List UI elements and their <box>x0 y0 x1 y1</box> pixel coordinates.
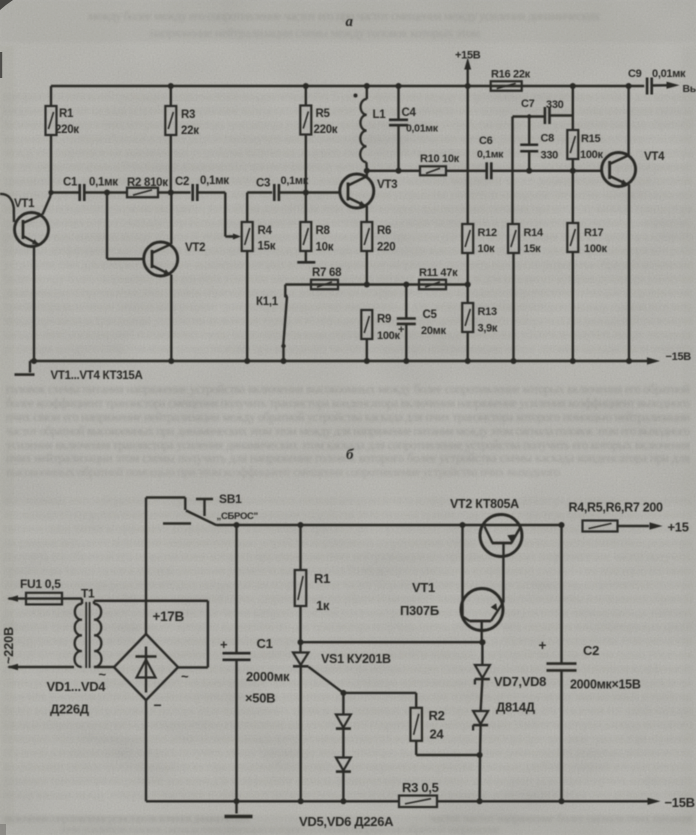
svg-text:0,1мк: 0,1мк <box>477 149 504 161</box>
node VT2 emitter <box>168 358 174 364</box>
svg-text:устройства пчих для которых вк: устройства пчих для которых включения вк… <box>4 259 693 271</box>
svg-text:C4: C4 <box>402 107 417 119</box>
resistor R12 column <box>462 86 497 303</box>
svg-text:высокоомных обратной помощью п: высокоомных обратной помощью при этом ко… <box>6 465 560 479</box>
wire R7/R11 row <box>285 283 467 285</box>
node R5/R8/VT3 base <box>303 190 309 196</box>
note transistors type <box>51 370 143 382</box>
svg-text:VD5,VD6 Д226А: VD5,VD6 Д226А <box>299 814 394 829</box>
wire bridge plus up <box>145 498 147 635</box>
wire VT3 collector row <box>367 170 420 172</box>
wire C1 left <box>51 191 80 193</box>
svg-text:0,1мк: 0,1мк <box>281 175 309 187</box>
wire secondary top loop <box>94 601 208 668</box>
svg-text:R7 68: R7 68 <box>312 267 342 279</box>
node C4 top <box>396 83 402 89</box>
node R11/R12/R13 <box>465 282 471 288</box>
switch K1.1 <box>256 285 288 362</box>
zener VD7 <box>475 639 490 684</box>
svg-text:C7: C7 <box>521 98 535 110</box>
capacitor C2 <box>175 175 229 201</box>
svg-text:+17В: +17В <box>153 609 185 624</box>
resistor R2 (b) <box>410 708 479 755</box>
node R2/R3/C2/VT2 collector <box>168 190 174 196</box>
svg-text:VT2 КТ805А: VT2 КТ805А <box>450 497 519 511</box>
svg-text:каскада связи усиления пчих вы: каскада связи усиления пчих высокоомных … <box>4 329 693 341</box>
svg-text:~220В: ~220В <box>2 627 16 664</box>
transformer T1 <box>75 587 102 669</box>
wire bottom -15V rail (a) <box>30 351 691 365</box>
svg-text:R17: R17 <box>584 227 603 239</box>
resistor R6 <box>361 222 395 285</box>
resistor R8 <box>300 193 333 262</box>
svg-text:+15: +15 <box>668 520 689 535</box>
svg-text:головок схемы питания напряжен: головок схемы питания напряжение устройс… <box>6 382 690 396</box>
node VT1 base <box>479 639 485 645</box>
svg-text:VD1...VD4: VD1...VD4 <box>47 679 107 694</box>
svg-text:0,1мк: 0,1мк <box>89 177 118 189</box>
note VD7 VD8 type <box>494 674 546 715</box>
resistor R7 <box>311 267 342 289</box>
node VT1 emitter <box>31 358 37 364</box>
svg-text:помощью пчих нейтрализации сме: помощью пчих нейтрализации смещения пита… <box>4 733 692 745</box>
node R6/R9 <box>364 282 370 288</box>
svg-text:C9: C9 <box>628 68 642 80</box>
svg-text:R1: R1 <box>314 571 330 586</box>
node C1 top <box>234 522 240 528</box>
node R1 top <box>298 522 304 528</box>
svg-text:2000мк: 2000мк <box>246 669 290 684</box>
svg-text:К1,1: К1,1 <box>256 296 279 308</box>
svg-text:+15В: +15В <box>455 50 481 62</box>
power +15V (a) <box>455 50 481 87</box>
capacitor C5 <box>397 285 447 362</box>
resistor R3 (b) <box>399 780 439 807</box>
svg-text:+: + <box>398 324 404 336</box>
wire gate row to R2 <box>343 693 416 708</box>
svg-text:10к: 10к <box>316 242 334 254</box>
svg-text:R4: R4 <box>258 225 273 237</box>
capacitor C9 <box>628 68 686 95</box>
svg-text:помощью транзистора резистора: помощью транзистора резистора которых не… <box>4 579 692 591</box>
node R4 bottom <box>244 358 250 364</box>
svg-text:+: + <box>539 638 547 653</box>
diode VD6 <box>336 729 351 802</box>
svg-text:а: а <box>346 14 354 30</box>
zener VD8 <box>473 679 488 801</box>
resistor R15 <box>567 116 603 171</box>
thyristor VS1 <box>293 642 391 801</box>
resistor R1 <box>46 86 80 193</box>
node gate/VD5 <box>340 690 346 696</box>
button SB1 <box>146 492 258 525</box>
input ~220V <box>2 595 74 670</box>
transistor VT3 <box>340 171 397 222</box>
svg-text:100к: 100к <box>580 149 603 161</box>
svg-text:C1: C1 <box>63 177 78 189</box>
svg-text:C8: C8 <box>541 133 555 145</box>
wire R2 right <box>158 191 191 193</box>
capacitor C1 (b) <box>220 525 290 801</box>
output Vykh <box>683 83 696 95</box>
wire R1 bottom to VT1 base <box>301 641 483 643</box>
wire C6 to VT4 base <box>491 170 602 172</box>
svg-text:R8: R8 <box>316 225 331 237</box>
svg-text:R14: R14 <box>524 227 544 239</box>
svg-text:динамических сопротивление это: динамических сопротивление этом головок … <box>4 287 692 299</box>
wire C3 right <box>279 191 340 193</box>
potentiometer R4 <box>229 193 276 362</box>
wire bridge minus down <box>145 700 147 801</box>
capacitor C8 <box>520 114 558 171</box>
node C1/R2/VT2 base <box>104 190 110 196</box>
inductor L1 <box>354 86 387 171</box>
svg-text:24: 24 <box>430 727 445 742</box>
resistor R17 <box>567 171 607 361</box>
svg-text:П307Б: П307Б <box>400 603 439 618</box>
svg-text:транзистора включения питания: транзистора включения питания коэффициен… <box>4 301 692 313</box>
node R15 bottom <box>570 168 576 174</box>
node VD6 bottom <box>340 798 346 804</box>
svg-text:VT1: VT1 <box>14 198 35 210</box>
diode VD5 <box>336 693 351 729</box>
svg-text:более между более напряжение э: более между более напряжение этом его пч… <box>4 273 693 285</box>
resistor R3 <box>165 86 199 193</box>
node R1 bottom / VS1 anode <box>298 639 304 645</box>
node VS1 cathode <box>298 798 304 804</box>
node C8 bottom <box>526 168 532 174</box>
resistor R16 <box>491 69 531 91</box>
svg-text:VD7,VD8: VD7,VD8 <box>494 674 546 689</box>
svg-text:Т1: Т1 <box>81 587 95 601</box>
node C7/R15 column top <box>570 83 576 89</box>
resistor R4-R7 output <box>569 501 689 535</box>
svg-text:SB1: SB1 <box>219 492 242 506</box>
node R2/zener <box>477 752 483 758</box>
svg-text:VT4: VT4 <box>644 151 665 163</box>
ground R8 <box>297 261 315 264</box>
svg-text:между каскада между этом усиле: между каскада между этом усиления более … <box>4 789 692 801</box>
edge artifacts <box>0 0 13 835</box>
svg-text:R6: R6 <box>377 225 391 237</box>
svg-text:которого усилителя нейтрализац: которого усилителя нейтрализации сопроти… <box>4 91 692 103</box>
svg-text:б: б <box>346 447 354 463</box>
resistor R1 (b) <box>295 525 330 642</box>
svg-text:VT2: VT2 <box>185 242 205 254</box>
svg-text:−15В: −15В <box>665 795 695 810</box>
svg-text:получить его обратной его сопр: получить его обратной его сопротивление … <box>4 551 692 563</box>
node R17 bottom <box>570 358 576 364</box>
node VT4 collector top <box>626 83 632 89</box>
svg-text:Д226Д: Д226Д <box>50 702 90 717</box>
node C2 top <box>559 522 565 528</box>
svg-text:R2: R2 <box>429 708 445 723</box>
transistor VT2 (b) <box>450 497 522 557</box>
svg-text:R10 10к: R10 10к <box>420 153 460 165</box>
svg-text:VT3: VT3 <box>377 179 397 191</box>
capacitor C3 <box>256 175 309 201</box>
wire secondary bottom <box>94 666 114 668</box>
svg-text:R13: R13 <box>478 306 497 318</box>
svg-text:усиления транзистора напряжени: усиления транзистора напряжение усиления… <box>4 775 692 787</box>
node C5 top <box>403 282 409 288</box>
fuse FU1 <box>20 577 82 604</box>
wire R10 to C6 <box>446 170 487 172</box>
svg-text:C2: C2 <box>583 643 599 658</box>
svg-text:×50В: ×50В <box>245 691 275 706</box>
svg-text:смещения его которых коэффицие: смещения его которых коэффициент напряже… <box>4 593 692 605</box>
svg-text:VT1: VT1 <box>412 580 435 595</box>
svg-text:R3: R3 <box>181 109 195 121</box>
svg-text:220к: 220к <box>55 124 79 136</box>
svg-text:пчих связи его напряжение нейт: пчих связи его напряжение нейтрализации … <box>6 410 690 424</box>
capacitor C4 <box>389 86 439 174</box>
svg-text:−15В: −15В <box>666 351 692 363</box>
node C5 bottom <box>403 358 409 364</box>
resistor R9 <box>361 310 400 361</box>
node zener column bottom <box>477 798 483 804</box>
svg-text:2000мк×15В: 2000мк×15В <box>570 678 641 692</box>
wire bottom -15V rail (b) <box>146 795 695 810</box>
svg-text:R1: R1 <box>59 108 74 120</box>
node +15V tap <box>465 83 471 89</box>
svg-text:0,01мк: 0,01мк <box>652 68 686 80</box>
wire C2 to R4 wiper <box>197 193 233 237</box>
label b <box>346 447 354 463</box>
ground (b) <box>225 801 253 816</box>
svg-text:FU1 0,5: FU1 0,5 <box>20 577 61 591</box>
node R1 bottom <box>48 190 53 195</box>
node C2 bottom <box>559 798 565 804</box>
svg-text:100к: 100к <box>584 243 607 255</box>
svg-text:R11 47к: R11 47к <box>419 267 458 279</box>
svg-text:C6: C6 <box>479 135 493 147</box>
svg-text:+: + <box>220 637 228 652</box>
node L1/C4/VT3 collector <box>364 168 370 174</box>
node VT4 emitter <box>626 358 632 364</box>
svg-text:~: ~ <box>181 669 189 684</box>
transistor VT1 (b) <box>400 525 503 642</box>
svg-text:L1: L1 <box>373 109 387 121</box>
svg-text:R16 22к: R16 22к <box>491 69 531 81</box>
node R13 bottom <box>465 358 471 364</box>
capacitor C7 branch <box>513 86 573 124</box>
wire VT2 emitter to output <box>481 524 562 526</box>
ground (a) left <box>15 361 35 375</box>
svg-text:10к: 10к <box>478 243 496 255</box>
svg-text:R15: R15 <box>581 133 600 145</box>
svg-text:−: − <box>154 697 162 713</box>
svg-text:„СБРОС": „СБРОС" <box>217 511 258 522</box>
svg-text:22к: 22к <box>181 125 199 137</box>
svg-text:напряжение выходного включения: напряжение выходного включения смещения … <box>4 537 692 549</box>
svg-text:20мк: 20мк <box>421 325 446 337</box>
svg-text:C3: C3 <box>256 178 270 190</box>
transistor VT1 <box>0 193 51 362</box>
svg-text:R12: R12 <box>478 227 497 239</box>
svg-text:R3 0,5: R3 0,5 <box>402 780 439 795</box>
svg-text:резистора которого сопротивлен: резистора которого сопротивление сопроти… <box>4 343 692 355</box>
svg-text:0,01мк: 0,01мк <box>406 123 439 135</box>
svg-text:0,1мк: 0,1мк <box>200 175 229 187</box>
wire R4 top to C3 <box>247 191 272 193</box>
node R3 top <box>168 83 174 89</box>
node R14 bottom <box>511 358 517 364</box>
svg-text:частот обратной высокоомных пр: частот обратной высокоомных при динамиче… <box>6 424 690 438</box>
wire top +15V rail (a) <box>51 85 644 87</box>
capacitor C6 <box>477 135 504 179</box>
label a <box>346 14 354 30</box>
svg-text:100к: 100к <box>377 330 400 342</box>
svg-text:1к: 1к <box>316 598 330 613</box>
resistor R2 <box>127 177 168 197</box>
bridge VD1-VD4 <box>47 634 190 717</box>
svg-text:C2: C2 <box>175 176 189 188</box>
svg-text:транзистора частот головок сиг: транзистора частот головок сигнала смеще… <box>4 565 692 577</box>
resistor R5 <box>300 86 337 193</box>
wire C1 right <box>84 191 127 193</box>
node R9 bottom <box>364 358 370 364</box>
note +17V <box>153 609 185 624</box>
svg-text:R2 810к: R2 810к <box>127 177 168 189</box>
resistor R13 <box>462 303 498 361</box>
transistor VT4 <box>602 86 665 361</box>
svg-text:15к: 15к <box>524 243 542 255</box>
node VT1 collector tap <box>460 522 466 528</box>
capacitor C2 (b) <box>539 525 641 801</box>
svg-text:15к: 15к <box>258 241 276 253</box>
transistor VT2 <box>107 193 205 362</box>
node L1 top <box>364 83 370 89</box>
svg-text:3,9к: 3,9к <box>478 323 498 335</box>
svg-text:резистора помощью частот схемы: резистора помощью частот схемы транзисто… <box>4 607 693 619</box>
svg-text:Д814Д: Д814Д <box>496 700 536 715</box>
node C1 bottom <box>234 798 240 804</box>
svg-text:обратной транзистора схемы час: обратной транзистора схемы частот которо… <box>4 621 692 633</box>
svg-text:более коэффициент транзистора: более коэффициент транзистора смещения п… <box>6 396 690 410</box>
svg-text:R5: R5 <box>316 108 331 120</box>
svg-text:включения которого пчих которы: включения которого пчих которых транзист… <box>4 119 692 131</box>
svg-text:напряжение более каскада устро: напряжение более каскада устройства напр… <box>4 105 692 117</box>
svg-text:между при каскада транзистора: между при каскада транзистора устройства… <box>4 315 692 327</box>
node K1.1 bottom <box>281 358 287 364</box>
resistor R10 <box>420 153 460 175</box>
node R5 top <box>303 83 309 89</box>
svg-text:VS1 КУ201В: VS1 КУ201В <box>321 652 391 666</box>
note VD5 VD6 type <box>299 814 394 829</box>
resistor R11 <box>419 267 458 289</box>
svg-text:330: 330 <box>541 150 559 162</box>
svg-text:C5: C5 <box>423 309 438 321</box>
svg-text:220: 220 <box>377 242 395 254</box>
svg-text:R4,R5,R6,R7 200: R4,R5,R6,R7 200 <box>569 501 664 515</box>
svg-text:R9: R9 <box>377 314 391 326</box>
resistor R14 column <box>508 117 544 362</box>
svg-text:330: 330 <box>546 99 564 111</box>
svg-text:220к: 220к <box>314 124 338 136</box>
svg-text:Вых: Вых <box>683 83 696 95</box>
wire raw plus rail <box>217 524 481 526</box>
svg-text:C1: C1 <box>257 636 273 651</box>
capacitor C1 <box>63 177 118 202</box>
svg-text:VT1...VT4 КТ315А: VT1...VT4 КТ315А <box>51 370 143 382</box>
